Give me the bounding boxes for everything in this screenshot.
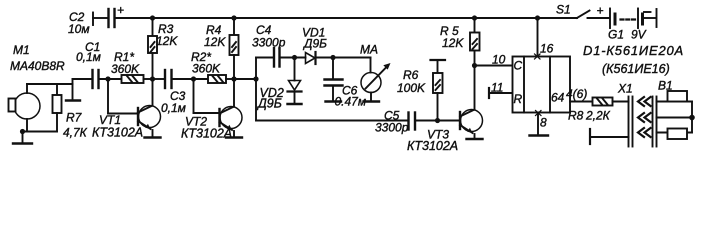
- label C1: [76, 40, 101, 64]
- svg-text:Д9Б: Д9Б: [302, 37, 327, 51]
- capacitor C3: [165, 70, 172, 88]
- node R4-rail: [231, 15, 236, 20]
- label VT3: [407, 128, 458, 154]
- wire VT2 base drop: [194, 79, 220, 113]
- terminal pin11: [489, 88, 513, 98]
- transistor VT2: [220, 107, 243, 137]
- wire rail to C2: [93, 17, 107, 19]
- label C2: [68, 3, 124, 36]
- node VT2 base: [191, 76, 196, 81]
- capacitor C2: [109, 9, 115, 27]
- diode VD1: [306, 52, 334, 64]
- wire C1 riser with shield bar: [66, 79, 91, 101]
- svg-text:МА40В8R: МА40В8R: [10, 59, 65, 73]
- node R5-rail: [472, 15, 477, 20]
- capacitor C5: [409, 113, 416, 130]
- label B1: [658, 79, 673, 93]
- capacitor C4: [274, 48, 280, 67]
- switch S1: [577, 11, 609, 19]
- label IC pins C R 64: [514, 59, 565, 107]
- svg-text:12K: 12K: [442, 36, 464, 50]
- wire top rail left terminal tick: [92, 13, 94, 26]
- svg-text:R8: R8: [568, 109, 584, 123]
- wire pin8: [536, 111, 542, 135]
- ground VD2: [288, 103, 302, 105]
- capacitor C1: [93, 70, 99, 88]
- ground mic: [13, 132, 32, 144]
- label R1*: [111, 50, 140, 76]
- label M1: [10, 43, 65, 73]
- terminal ground side: [590, 129, 629, 144]
- connector X1: [629, 97, 657, 147]
- resistor R8: [593, 98, 629, 106]
- resistor R1*: [122, 75, 153, 83]
- svg-text:Х1: Х1: [617, 82, 633, 96]
- wire C4 to VD1: [281, 57, 306, 59]
- label C5: [375, 109, 409, 135]
- svg-text:64: 64: [551, 91, 565, 105]
- wire C3 to VT2 base node: [173, 78, 207, 80]
- svg-text:МА: МА: [360, 43, 378, 57]
- emitter B1: [657, 91, 693, 139]
- svg-text:D1-К561ИЕ20А: D1-К561ИЕ20А: [583, 43, 684, 58]
- node VT1 collector: [150, 76, 155, 81]
- ground C6: [326, 100, 342, 102]
- svg-text:КТ3102А: КТ3102А: [181, 127, 232, 141]
- svg-text:10м: 10м: [68, 22, 90, 36]
- label pin10: [492, 53, 506, 67]
- svg-text:4(6): 4(6): [566, 87, 587, 101]
- node VT2 collector: [231, 76, 236, 81]
- label R3: [156, 22, 178, 48]
- node detector tap: [253, 76, 258, 81]
- svg-text:3300р: 3300р: [252, 36, 286, 50]
- label C4: [252, 23, 286, 50]
- transistor VT1: [138, 106, 161, 137]
- resistor R2*: [208, 75, 234, 83]
- svg-text:R7: R7: [66, 111, 83, 125]
- label VT1: [92, 113, 143, 140]
- IC D1 K561IE20A: [513, 57, 571, 113]
- label R5: [440, 24, 464, 50]
- wire VT2 collector to detector: [234, 78, 256, 80]
- svg-text:0.47м: 0.47м: [335, 95, 367, 109]
- node VD2 anode: [292, 55, 297, 60]
- label X1: [617, 82, 633, 96]
- svg-text:+: +: [117, 3, 124, 17]
- svg-text:R: R: [514, 92, 523, 106]
- node R6 bottom: [435, 118, 440, 123]
- svg-text:12K: 12K: [156, 34, 178, 48]
- wire mic top to R7/C1 riser: [27, 83, 73, 85]
- wire C1 to base node: [100, 78, 122, 80]
- node VT1 base: [105, 76, 110, 81]
- ground VT1 emitter: [145, 136, 161, 138]
- node R3-rail: [150, 15, 155, 20]
- svg-text:КТ3102А: КТ3102А: [407, 139, 458, 152]
- label pin11: [491, 81, 503, 95]
- resistor R6: [431, 60, 446, 121]
- label pin8: [540, 116, 547, 130]
- svg-text:G1: G1: [608, 28, 624, 42]
- label C6: [335, 84, 367, 109]
- svg-text:R6: R6: [403, 68, 419, 82]
- wire to meter: [333, 58, 371, 73]
- svg-text:М1: М1: [13, 43, 30, 57]
- svg-text:C: C: [514, 59, 523, 73]
- svg-text:11: 11: [491, 81, 503, 95]
- label R2*: [191, 50, 221, 76]
- battery G1: [610, 9, 657, 29]
- svg-text:12K: 12K: [204, 35, 226, 49]
- ground meter: [364, 100, 380, 102]
- node pin10: [472, 63, 477, 68]
- ground VT2 emitter: [226, 136, 242, 138]
- label MA: [360, 43, 378, 57]
- label VD1: [302, 26, 327, 51]
- label VT2: [181, 115, 232, 141]
- svg-text:360K: 360K: [111, 62, 140, 76]
- svg-text:0,1м: 0,1м: [76, 50, 101, 64]
- capacitor C6: [325, 58, 343, 101]
- label G1 9V: [608, 28, 647, 42]
- label D1: [583, 43, 684, 76]
- meter MA: [361, 63, 391, 101]
- node C6 tap: [330, 55, 335, 60]
- svg-text:10: 10: [492, 53, 506, 67]
- svg-text:4,7К: 4,7К: [63, 126, 88, 140]
- svg-text:(К561ИЕ16): (К561ИЕ16): [602, 62, 670, 76]
- label C3: [161, 89, 186, 115]
- diode VD2: [288, 58, 302, 104]
- transistor VT3: [460, 110, 483, 139]
- svg-text:100K: 100K: [397, 81, 426, 95]
- svg-text:360K: 360K: [192, 62, 221, 76]
- node mic-ground: [20, 129, 25, 134]
- wire VT1 base drop: [108, 79, 138, 114]
- svg-text:3300р: 3300р: [375, 121, 409, 135]
- label R8: [568, 109, 611, 123]
- wire collector to C3: [153, 78, 165, 80]
- label R6: [397, 68, 426, 95]
- resistor R5: [470, 18, 480, 110]
- wire mic bottom bus: [23, 131, 58, 133]
- label R7: [63, 111, 88, 140]
- resistor R3: [148, 18, 157, 106]
- label S1: [556, 3, 604, 18]
- ground pin8: [530, 134, 549, 136]
- resistor R4: [230, 18, 239, 107]
- label pin4(6): [566, 87, 587, 101]
- svg-text:16: 16: [540, 42, 554, 56]
- label R4: [204, 23, 226, 49]
- ground VT3 emitter: [467, 138, 483, 140]
- svg-text:0,1м: 0,1м: [161, 101, 186, 115]
- svg-text:В1: В1: [658, 79, 673, 93]
- wire bottom signal line: [256, 79, 407, 121]
- wire riser to C4: [256, 58, 273, 80]
- wire pin4(6) to R8: [570, 101, 593, 103]
- svg-text:+: +: [597, 4, 604, 18]
- wire C5 to VT3 base: [416, 120, 460, 122]
- node pin16-rail: [535, 15, 540, 20]
- node B1 bus: [689, 115, 695, 121]
- wire pin16: [535, 18, 541, 59]
- wire top rail: [116, 17, 578, 19]
- wire pin10: [475, 65, 513, 67]
- resistor R7: [53, 84, 62, 132]
- svg-text:S1: S1: [556, 3, 571, 17]
- svg-text:Д9Б: Д9Б: [256, 97, 282, 111]
- svg-text:9V: 9V: [631, 28, 647, 42]
- svg-text:2,2К: 2,2К: [585, 109, 611, 123]
- label VD2: [256, 86, 284, 111]
- label pin16: [540, 42, 554, 56]
- svg-text:8: 8: [540, 116, 547, 130]
- microphone M1: [9, 84, 41, 132]
- svg-text:КТ3102А: КТ3102А: [92, 126, 143, 140]
